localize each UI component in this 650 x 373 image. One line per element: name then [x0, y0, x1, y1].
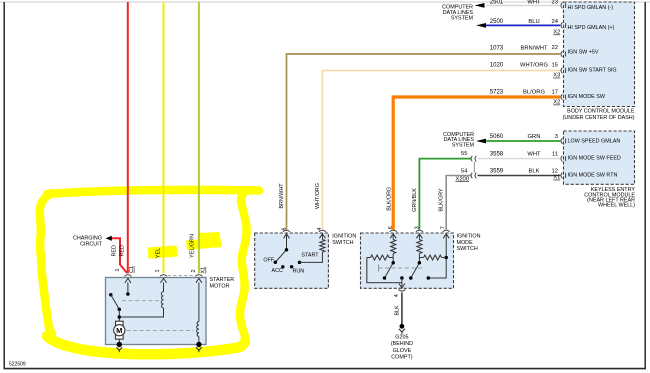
- svg-text:GLOVE: GLOVE: [393, 348, 412, 354]
- svg-text:BLK: BLK: [394, 305, 400, 316]
- ignition mode switch box: [361, 233, 454, 288]
- svg-text:OFF: OFF: [263, 257, 274, 263]
- svg-text:GRN/BLK: GRN/BLK: [412, 188, 418, 212]
- inline connector X200 pin 54: [471, 173, 472, 179]
- svg-text:3558: 3558: [490, 152, 504, 158]
- wire RED vertical from top: [127, 2, 129, 273]
- svg-text:55: 55: [461, 151, 467, 157]
- svg-text:1: 1: [115, 269, 121, 272]
- connector strip dashes: [168, 274, 193, 276]
- svg-text:3: 3: [414, 226, 420, 229]
- svg-text:IGN MODE SW: IGN MODE SW: [568, 94, 606, 100]
- pin 2 X1 starter (yel/grn): [195, 275, 202, 277]
- svg-text:WHT/ORG: WHT/ORG: [520, 62, 549, 68]
- keyless entry control module box: [564, 131, 635, 184]
- svg-text:17: 17: [552, 89, 558, 95]
- hold-in winding right: [198, 283, 200, 322]
- svg-text:54: 54: [461, 168, 468, 174]
- label COMPUTER DATA LINES SYSTEM (top): [442, 5, 473, 22]
- switch arm 1: [385, 263, 393, 278]
- svg-text:WHT/ORG: WHT/ORG: [315, 183, 321, 209]
- svg-text:BRN/WHT: BRN/WHT: [520, 46, 548, 52]
- svg-text:YEL/GRN: YEL/GRN: [190, 234, 196, 258]
- wire 1073 BRN/WHT (ign sw +5v): [287, 54, 561, 230]
- right horizontal resistor: [419, 257, 423, 259]
- wire 3558 WHT (ign mode sw feed): [478, 158, 561, 160]
- common output leg: [401, 278, 403, 288]
- svg-text:X1: X1: [553, 175, 560, 181]
- svg-text:7: 7: [441, 226, 447, 229]
- page right border: [644, 2, 646, 369]
- wire 5723 BL/ORG (ign mode sw) thick orange: [393, 97, 560, 230]
- svg-text:RUN: RUN: [292, 268, 304, 274]
- contact dots row: [383, 276, 387, 280]
- page bottom border: [4, 368, 647, 370]
- wire 1020 WHT/ORG (ign sw start sig): [322, 71, 560, 230]
- pin 3 ignition mode switch: [416, 230, 423, 232]
- svg-text:C1: C1: [129, 266, 135, 273]
- svg-text:4: 4: [394, 294, 400, 297]
- solenoid contact from pin 1: [127, 283, 129, 295]
- svg-text:3559: 3559: [490, 169, 504, 175]
- svg-text:X200: X200: [455, 176, 469, 182]
- starter motor box: [106, 278, 207, 345]
- svg-text:1020: 1020: [490, 63, 504, 69]
- label CHARGING CIRCUIT: [73, 235, 103, 247]
- connector X200 vertical link: [473, 162, 475, 173]
- pin 4 exit ignition mode switch: [399, 284, 405, 289]
- svg-text:BRN/WHT: BRN/WHT: [279, 183, 285, 209]
- ignition mode switch label: [457, 233, 481, 252]
- highlight blob on YEL/GRN label: [186, 238, 222, 251]
- mechanical link arm-coil dashed: [122, 300, 162, 302]
- svg-text:M: M: [116, 326, 122, 335]
- svg-text:24: 24: [552, 19, 559, 25]
- svg-text:IGN SW START SIG: IGN SW START SIG: [568, 68, 617, 74]
- svg-text:IGN MODE SW FEED: IGN MODE SW FEED: [568, 156, 621, 162]
- svg-text:5060: 5060: [490, 134, 504, 140]
- resistor on pin 6 leg: [392, 234, 394, 240]
- motor M: [116, 321, 124, 325]
- svg-text:SYSTEM: SYSTEM: [452, 143, 475, 149]
- left horizontal resistor: [367, 257, 371, 259]
- ground stud left: [117, 342, 122, 347]
- svg-text:3: 3: [555, 134, 558, 140]
- svg-text:15: 15: [552, 62, 558, 68]
- resistor on pin 3 leg: [418, 234, 420, 240]
- wire RED branch to charging circuit: [111, 238, 127, 273]
- svg-text:IGN SW +5V: IGN SW +5V: [568, 50, 599, 56]
- svg-text:1: 1: [155, 270, 161, 273]
- svg-text:X2: X2: [553, 100, 560, 106]
- svg-text:RED: RED: [120, 245, 126, 256]
- pin 1 starter (yel): [160, 275, 167, 277]
- svg-text:SWITCH: SWITCH: [457, 246, 478, 252]
- highlight blob on YEL label: [148, 246, 178, 259]
- svg-text:BLK/GRY: BLK/GRY: [439, 188, 445, 212]
- svg-text:BLK: BLK: [529, 168, 540, 174]
- svg-text:MOTOR: MOTOR: [210, 283, 230, 289]
- svg-text:2: 2: [191, 270, 197, 273]
- wire 5060 GRN (low speed gmlan): [486, 140, 560, 142]
- wire 2501 WHT (hi spd gmlan -): [486, 5, 560, 7]
- svg-text:23: 23: [552, 0, 558, 5]
- label KEYLESS ENTRY CONTROL MODULE: [584, 187, 635, 209]
- svg-text:COMPT): COMPT): [391, 355, 412, 361]
- svg-text:BODY CONTROL MODULE: BODY CONTROL MODULE: [567, 109, 635, 115]
- svg-text:HI SPD GMLAN (-): HI SPD GMLAN (-): [568, 5, 614, 11]
- svg-text:IGNITION: IGNITION: [457, 233, 481, 239]
- label COMPUTER DATA LINES SYSTEM (lower): [443, 132, 474, 149]
- svg-text:2501: 2501: [490, 0, 504, 5]
- svg-text:GRN: GRN: [528, 134, 541, 140]
- solenoid pull-in coil: [163, 283, 165, 292]
- svg-text:BL/ORG: BL/ORG: [523, 89, 545, 95]
- pin 7 ignition mode switch: [443, 230, 450, 232]
- ignition switch box: [255, 233, 329, 288]
- svg-text:YEL: YEL: [156, 248, 162, 258]
- svg-text:CIRCUIT: CIRCUIT: [80, 242, 103, 248]
- wire YEL/GRN vertical from top: [198, 2, 200, 273]
- svg-text:ACC: ACC: [272, 268, 283, 274]
- svg-text:START: START: [301, 253, 319, 259]
- svg-text:WHT: WHT: [527, 152, 541, 158]
- mechanical link dashed: [378, 265, 380, 272]
- svg-text:RED: RED: [112, 245, 118, 256]
- svg-text:X1: X1: [201, 267, 207, 274]
- pin 6 ignition switch: [283, 230, 290, 232]
- svg-text:2500: 2500: [490, 19, 504, 25]
- svg-text:SYSTEM: SYSTEM: [451, 16, 474, 22]
- highlighter loop (hand-drawn yellow): [40, 190, 259, 354]
- svg-text:4: 4: [317, 228, 323, 231]
- svg-text:(BEHIND: (BEHIND: [391, 341, 413, 347]
- svg-text:HI SPD GMLAN (+): HI SPD GMLAN (+): [568, 25, 615, 31]
- svg-text:SWITCH: SWITCH: [332, 240, 353, 246]
- contact START: [298, 261, 302, 265]
- pin 6 ignition mode switch: [390, 230, 397, 232]
- page left border: [3, 2, 5, 369]
- svg-text:5723: 5723: [490, 90, 504, 96]
- ground stud right: [196, 342, 201, 347]
- svg-text:11: 11: [552, 152, 558, 158]
- svg-text:1073: 1073: [490, 46, 504, 52]
- wire YEL vertical from top: [163, 2, 165, 273]
- svg-text:IGNITION: IGNITION: [332, 233, 356, 239]
- svg-text:STARTER: STARTER: [210, 277, 235, 283]
- svg-text:X2: X2: [553, 30, 560, 36]
- svg-text:522509: 522509: [9, 362, 26, 368]
- ignition switch label: [332, 233, 356, 245]
- ground G205: [400, 324, 405, 329]
- pin 4 ignition switch: [319, 230, 326, 232]
- wire 3559 BLK (ign mode sw rtn): [478, 175, 561, 177]
- contact OFF: [274, 261, 278, 265]
- svg-text:6: 6: [281, 228, 287, 231]
- svg-text:BLU: BLU: [528, 19, 539, 25]
- switch arm to OFF: [276, 250, 287, 262]
- wire 2500 BLU (hi spd gmlan +): [486, 24, 560, 26]
- svg-text:WHT: WHT: [527, 0, 541, 5]
- svg-text:CHARGING: CHARGING: [73, 235, 102, 241]
- starter motor label: [210, 277, 235, 289]
- svg-text:G205: G205: [395, 334, 408, 340]
- pin 1 C1 starter (red feed): [124, 275, 131, 277]
- left branch down to common: [367, 258, 402, 283]
- svg-text:12: 12: [552, 168, 558, 174]
- wire START to pin 4 with resistor: [300, 252, 323, 262]
- mechanical link motor dashed: [127, 329, 194, 331]
- svg-text:WHEEL WELL): WHEEL WELL): [598, 203, 635, 209]
- arrow to charging circuit: [106, 236, 112, 241]
- svg-text:MODE: MODE: [457, 240, 474, 246]
- label BODY CONTROL MODULE: [563, 109, 635, 122]
- wire BLK to ground: [401, 293, 403, 325]
- svg-text:IGN MODE SW RTN: IGN MODE SW RTN: [568, 172, 618, 178]
- inline connector X200 pin 55: [471, 156, 472, 162]
- ignition switch internal wiring: [286, 234, 288, 250]
- pin 7 leg down right side: [428, 234, 446, 278]
- svg-text:BLK/ORG: BLK/ORG: [387, 187, 393, 211]
- contact RUN: [290, 265, 293, 268]
- svg-text:X3: X3: [553, 73, 560, 79]
- body control module box: [564, 2, 635, 107]
- switch arm 2: [411, 263, 419, 278]
- svg-text:22: 22: [552, 45, 558, 51]
- contact ACC: [281, 265, 284, 268]
- svg-text:LOW SPEED GMLAN: LOW SPEED GMLAN: [568, 139, 621, 145]
- svg-text:(UNDER CENTER OF DASH): (UNDER CENTER OF DASH): [563, 115, 635, 121]
- svg-text:6: 6: [388, 226, 394, 229]
- solenoid switch arm: [109, 293, 113, 297]
- page top border: [0, 1, 650, 3]
